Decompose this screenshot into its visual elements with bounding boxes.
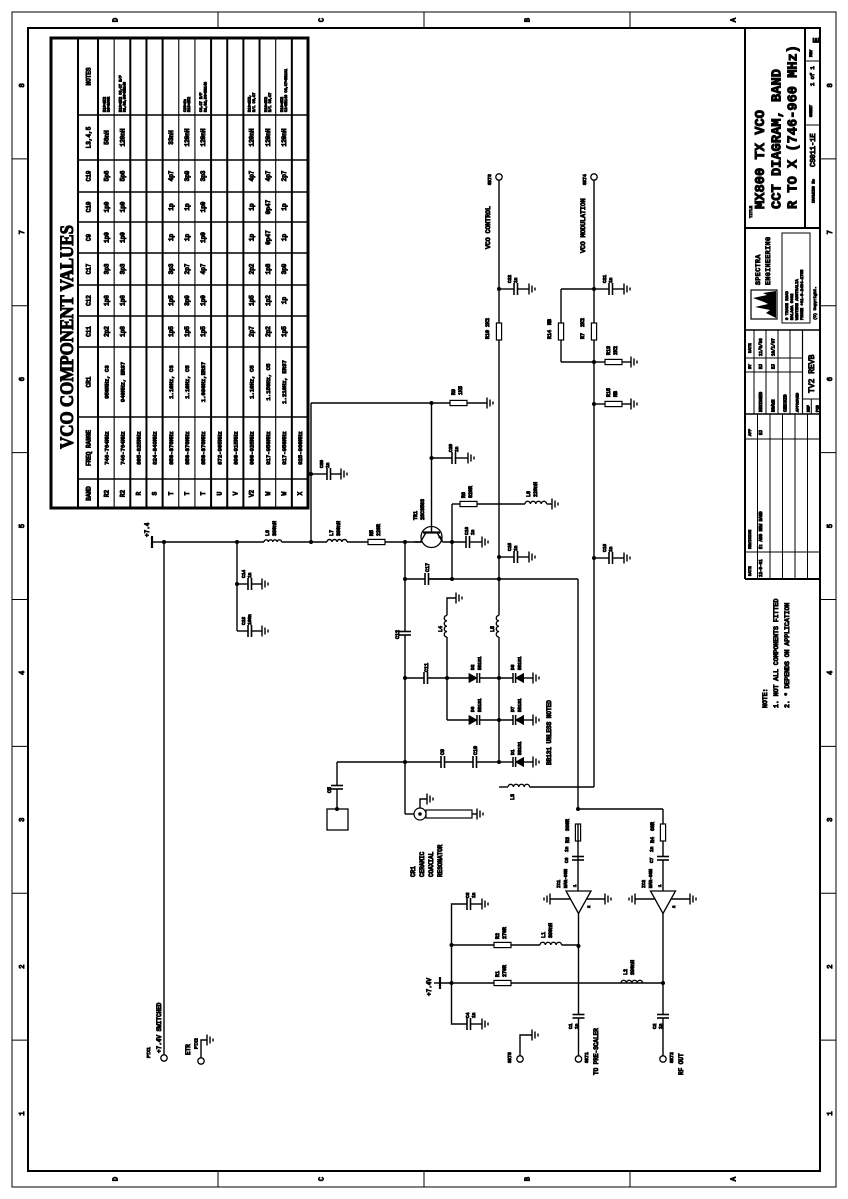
svg-text:R7: R7: [580, 333, 586, 339]
svg-text:9 TRADE ROAD: 9 TRADE ROAD: [786, 291, 790, 320]
resistor R10 2K2: [496, 323, 501, 340]
capacitor C21 1n: [592, 287, 596, 291]
svg-text:APP: APP: [749, 428, 753, 436]
svg-text:872-905MHz: 872-905MHz: [216, 431, 223, 465]
capacitor C30 1n: [309, 472, 313, 476]
wire emitter down: [443, 541, 467, 543]
svg-text:1n: 1n: [608, 546, 614, 552]
svg-text:B: B: [525, 18, 533, 22]
capacitor C22 1n: [497, 287, 501, 291]
svg-text:C11: C11: [86, 326, 93, 337]
svg-text:1n: 1n: [513, 277, 519, 283]
svg-text:3p3: 3p3: [168, 263, 175, 274]
svg-text:N/L C6,C7: N/L C6,C7: [252, 93, 257, 112]
svg-text:805-825MHz: 805-825MHz: [136, 431, 143, 465]
ground IC2 bottom: [671, 898, 691, 900]
svg-text:940MHz, ER37: 940MHz, ER37: [119, 362, 126, 402]
svg-text:ENGINEERING: ENGINEERING: [765, 237, 772, 285]
svg-text:MAR-6SM: MAR-6SM: [563, 869, 569, 888]
pad box: [327, 809, 348, 830]
svg-text:2p7: 2p7: [184, 263, 191, 274]
svg-text:16/1/97: 16/1/97: [771, 338, 776, 356]
svg-text:100n: 100n: [247, 614, 253, 625]
resistor R13 2K2: [592, 360, 596, 364]
svg-text:R2: R2: [495, 933, 501, 939]
svg-text:1. NOT ALL COMPONENTS FITTED: 1. NOT ALL COMPONENTS FITTED: [773, 599, 780, 708]
svg-text:SKT4: SKT4: [582, 174, 588, 185]
svg-text:CR1: CR1: [410, 866, 417, 877]
svg-text:1p: 1p: [249, 234, 256, 242]
svg-text:BAND: BAND: [86, 486, 93, 501]
svg-text:MALAGA 6062: MALAGA 6062: [791, 293, 795, 320]
svg-text:C20: C20: [448, 444, 454, 452]
resistor R4 68R: [660, 824, 665, 841]
svg-text:TO PRE-SCALER: TO PRE-SCALER: [593, 1028, 600, 1075]
resistor R1 270R: [494, 980, 511, 985]
svg-text:BB131 UNLESS NOTED: BB131 UNLESS NOTED: [546, 700, 553, 765]
capacitor C6 1n: [572, 859, 584, 861]
svg-text:1p: 1p: [281, 234, 288, 242]
svg-text:5p6: 5p6: [103, 170, 110, 181]
svg-text:W: W: [281, 491, 288, 495]
svg-text:1 of 1: 1 of 1: [809, 65, 816, 86]
svg-text:WESTERN AUSTRALIA: WESTERN AUSTRALIA: [796, 279, 800, 320]
svg-text:S: S: [152, 491, 159, 495]
svg-text:C18: C18: [602, 544, 608, 552]
svg-text:RESONATOR: RESONATOR: [437, 844, 444, 877]
capacitor C12: [399, 634, 411, 636]
svg-text:120nH: 120nH: [265, 128, 272, 146]
svg-text:3: 3: [19, 818, 27, 822]
svg-text:SKT1: SKT1: [584, 1052, 590, 1063]
svg-text:2SC3583: 2SC3583: [420, 499, 426, 520]
resistor R6 820R: [452, 503, 460, 505]
svg-text:1.1GHz, C3: 1.1GHz, C3: [168, 365, 175, 399]
svg-text:R15: R15: [606, 388, 612, 397]
svg-text:NB: NB: [613, 391, 619, 397]
svg-text:1p8: 1p8: [103, 295, 110, 306]
svg-text:1p5: 1p5: [168, 295, 175, 306]
wire pad to node: [337, 761, 405, 763]
resistor R7 2K2: [591, 323, 596, 340]
svg-text:890-915MHz: 890-915MHz: [233, 431, 240, 465]
svg-text:CCT DIAGRAM, BAND: CCT DIAGRAM, BAND: [770, 69, 786, 209]
svg-text:L1: L1: [541, 932, 547, 938]
svg-text:270R: 270R: [502, 965, 508, 977]
svg-text:2K2: 2K2: [580, 318, 586, 327]
svg-text:PTX2: PTX2: [194, 1038, 200, 1049]
svg-text:C11: C11: [424, 663, 430, 672]
svg-text:R14: R14: [547, 330, 553, 339]
capacitor C7 1n: [657, 859, 669, 861]
svg-text:C1=BB149 C6,C7=BB131: C1=BB149 C6,C7=BB131: [285, 69, 289, 112]
svg-text:REVISION: REVISION: [749, 529, 753, 549]
svg-text:1p0: 1p0: [200, 232, 207, 243]
capacitor C2 1n: [657, 1017, 669, 1019]
svg-text:746-764MHz: 746-764MHz: [119, 431, 126, 465]
svg-text:33nH: 33nH: [168, 130, 175, 145]
svg-text:IC2: IC2: [641, 880, 647, 888]
svg-text:L4: L4: [438, 626, 444, 632]
capacitor C3 1n: [452, 904, 468, 945]
svg-text:NOTE:: NOTE:: [762, 688, 769, 708]
svg-text:APPROVED: APPROVED: [797, 392, 801, 412]
svg-text:L8: L8: [526, 491, 532, 497]
svg-text:5: 5: [827, 524, 835, 528]
ground IC1 bottom: [586, 898, 605, 900]
svg-text:R6: R6: [461, 492, 467, 498]
svg-text:C9: C9: [86, 234, 93, 242]
svg-text:VCO MODULATION: VCO MODULATION: [580, 198, 587, 253]
resonator CR1: [405, 813, 414, 815]
svg-text:1n: 1n: [471, 1012, 477, 1018]
svg-text:12-9-01: 12-9-01: [760, 559, 764, 577]
svg-text:E: ADD NEW BAND: E: ADD NEW BAND: [760, 511, 764, 549]
svg-text:D1,D2,D3=BB149: D1,D2,D3=BB149: [204, 82, 208, 112]
wire VCO control: [498, 637, 500, 762]
wire IC1 output: [578, 914, 580, 947]
svg-text:VCO CONTROL: VCO CONTROL: [485, 206, 492, 249]
svg-text:7: 7: [827, 230, 835, 234]
connector SKT4: [591, 174, 597, 180]
svg-text:NOTES: NOTES: [86, 67, 93, 85]
capacitor C13 100n: [237, 630, 248, 632]
svg-text:5p6: 5p6: [119, 170, 126, 181]
svg-text:1p8: 1p8: [265, 263, 272, 274]
svg-text:2. * DEPENDS ON APPLICATION: 2. * DEPENDS ON APPLICATION: [784, 603, 791, 708]
wire bridge: [451, 945, 453, 983]
svg-text:0p47: 0p47: [265, 199, 272, 214]
svg-text:1p0: 1p0: [103, 201, 110, 212]
svg-text:(C) Copyright.: (C) Copyright.: [813, 286, 818, 320]
svg-text:120nH: 120nH: [184, 128, 191, 146]
svg-text:FREQ RANGE: FREQ RANGE: [86, 430, 93, 466]
svg-text:C19: C19: [86, 170, 93, 181]
svg-text:C12: C12: [86, 295, 93, 306]
power +7.4: [152, 541, 164, 543]
svg-text:850-870MHz: 850-870MHz: [200, 431, 207, 465]
svg-text:1: 1: [19, 1111, 27, 1115]
inductor L5: [496, 615, 499, 637]
svg-text:SKT5: SKT5: [507, 1052, 513, 1063]
svg-text:4p7: 4p7: [168, 170, 175, 181]
svg-text:D1: D1: [510, 749, 516, 755]
svg-text:SKT2: SKT2: [669, 1052, 675, 1063]
svg-text:1p5: 1p5: [249, 295, 256, 306]
svg-text:+7.4: +7.4: [144, 522, 151, 537]
svg-text:1p0: 1p0: [119, 201, 126, 212]
svg-text:1p8: 1p8: [119, 295, 126, 306]
capacitor C9: [405, 761, 441, 763]
wire base bias: [310, 403, 312, 542]
svg-text:C: C: [319, 18, 327, 22]
svg-text:C1: C1: [568, 1023, 574, 1029]
svg-text:3p9: 3p9: [281, 263, 288, 274]
svg-text:1.21GHz, ER37: 1.21GHz, ER37: [281, 360, 288, 404]
svg-text:L7: L7: [329, 530, 335, 536]
svg-text:D8: D8: [510, 664, 516, 670]
svg-text:3p3: 3p3: [103, 263, 110, 274]
svg-text:2p2: 2p2: [103, 326, 110, 337]
wire IC2 feed: [662, 809, 664, 824]
inductor L1 390nH: [511, 944, 540, 946]
svg-text:R TO X (746-960 MHz): R TO X (746-960 MHz): [786, 45, 802, 209]
svg-text:4p7: 4p7: [265, 170, 272, 181]
svg-text:3p9: 3p9: [184, 170, 191, 181]
svg-text:EJ: EJ: [760, 429, 764, 435]
wire C14/C13 branch: [236, 542, 238, 631]
svg-text:390nH: 390nH: [630, 960, 636, 975]
svg-text:1n: 1n: [608, 277, 614, 283]
svg-text:C10: C10: [473, 746, 479, 755]
resistor R15 NB: [592, 402, 596, 406]
inductor L4: [446, 637, 448, 678]
wire base lead: [431, 403, 433, 532]
transistor TR1 2SC3583: [421, 527, 442, 548]
svg-text:SKT3: SKT3: [487, 174, 493, 185]
capacitor C11: [405, 677, 424, 679]
svg-text:DATE: DATE: [749, 566, 753, 576]
svg-text:C22: C22: [507, 275, 513, 283]
capacitor C5: [336, 789, 338, 809]
svg-text:C13: C13: [241, 617, 247, 625]
svg-text:120nH: 120nH: [200, 128, 207, 146]
svg-text:DRAWN: DRAWN: [772, 399, 776, 412]
svg-text:925-960MHz: 925-960MHz: [297, 431, 304, 465]
svg-text:+7.4V SWITCHED: +7.4V SWITCHED: [156, 1002, 163, 1053]
svg-text:COAXIAL: COAXIAL: [428, 851, 435, 877]
svg-text:CR1: CR1: [86, 376, 93, 387]
svg-text:C17: C17: [425, 563, 431, 572]
svg-text:1p5: 1p5: [168, 326, 175, 337]
svg-text:1p2: 1p2: [265, 295, 272, 306]
svg-text:RF OUT: RF OUT: [678, 1053, 685, 1075]
svg-text:1n: 1n: [513, 545, 519, 551]
inductor L3: [499, 786, 508, 788]
svg-text:746-764MHz: 746-764MHz: [103, 431, 110, 465]
svg-text:68R: 68R: [650, 822, 656, 831]
capacitor C14 1n: [237, 583, 248, 585]
svg-text:REF: REF: [808, 404, 812, 412]
svg-text:C7: C7: [649, 857, 655, 863]
svg-text:390nH: 390nH: [548, 923, 554, 938]
svg-text:C3: C3: [465, 892, 471, 898]
svg-text:917-950MHz: 917-950MHz: [281, 431, 288, 465]
svg-text:56nH: 56nH: [103, 130, 110, 145]
svg-text:2: 2: [19, 965, 27, 969]
svg-text:R13=2K2: R13=2K2: [188, 97, 192, 112]
svg-text:4: 4: [19, 671, 27, 675]
svg-text:D: D: [113, 18, 121, 22]
svg-text:4: 4: [827, 671, 835, 675]
svg-text:PHONE +61-9-2484-2755: PHONE +61-9-2484-2755: [801, 269, 805, 320]
svg-text:X: X: [297, 491, 304, 495]
resistor R5 220R: [368, 539, 385, 544]
svg-text:1n: 1n: [247, 572, 253, 578]
connector SKT5: [517, 1056, 523, 1062]
svg-text:T: T: [200, 491, 207, 495]
svg-text:4p7: 4p7: [200, 263, 207, 274]
svg-text:390nH: 390nH: [272, 521, 278, 536]
connector SKT3: [496, 174, 502, 180]
wire VCO modulation: [593, 340, 595, 787]
svg-text:3p3: 3p3: [119, 263, 126, 274]
svg-text:1.1GHz, C5: 1.1GHz, C5: [184, 365, 191, 399]
svg-text:2p7: 2p7: [249, 326, 256, 337]
svg-text:850-870MHz: 850-870MHz: [184, 431, 191, 465]
svg-text:SPECTRA: SPECTRA: [755, 254, 762, 285]
wire collector from R5: [414, 541, 421, 543]
svg-text:L5: L5: [490, 626, 496, 632]
svg-text:R5: R5: [369, 530, 375, 536]
svg-text:C14: C14: [241, 570, 247, 578]
capacitor C4 1n: [452, 983, 468, 1024]
svg-text:2p2: 2p2: [265, 326, 272, 337]
svg-text:1p: 1p: [281, 203, 288, 211]
svg-text:DRAWING No: DRAWING No: [813, 178, 817, 203]
svg-text:R9: R9: [451, 389, 457, 395]
svg-text:1p0: 1p0: [103, 232, 110, 243]
capacitor C17 feedback: [405, 578, 425, 580]
svg-text:1p0: 1p0: [119, 232, 126, 243]
svg-text:824-849MHz: 824-849MHz: [152, 431, 159, 465]
svg-text:2K2: 2K2: [613, 346, 619, 355]
svg-text:R2: R2: [103, 490, 110, 498]
svg-text:R1: R1: [495, 971, 501, 977]
wire resonator node: [404, 635, 406, 814]
svg-text:1p5: 1p5: [184, 326, 191, 337]
svg-text:8: 8: [19, 83, 27, 87]
power +7.4V: [440, 982, 663, 984]
svg-text:2p2: 2p2: [249, 263, 256, 274]
svg-text:2p7: 2p7: [281, 170, 288, 181]
svg-text:1n: 1n: [325, 462, 331, 468]
svg-text:D7: D7: [510, 706, 516, 712]
svg-text:5: 5: [19, 524, 27, 528]
svg-text:VCO COMPONENT VALUES: VCO COMPONENT VALUES: [57, 225, 78, 449]
resistor R14 NB (parallel): [560, 340, 562, 362]
svg-text:R4=100R: R4=100R: [107, 96, 111, 112]
svg-text:CS011-1E: CS011-1E: [810, 133, 818, 167]
svg-text:1p0: 1p0: [200, 201, 207, 212]
svg-text:C21: C21: [602, 275, 608, 283]
wire link columns: [446, 678, 448, 720]
svg-text:120nH: 120nH: [119, 128, 126, 146]
svg-text:L3: L3: [510, 794, 516, 800]
wire to control junction: [429, 578, 453, 580]
svg-text:D: D: [113, 1177, 121, 1181]
svg-text:1.09GHz,ER37: 1.09GHz,ER37: [200, 362, 207, 402]
capacitor C20 1n: [430, 456, 434, 460]
svg-text:820R: 820R: [468, 486, 474, 498]
svg-text:E: E: [812, 37, 822, 43]
svg-text:R3: R3: [565, 837, 571, 843]
amplifier IC1 MAR-6SM: [566, 891, 591, 914]
svg-text:BB131: BB131: [517, 656, 523, 670]
svg-text:220R: 220R: [376, 524, 382, 536]
varactor D6 BB131: [447, 719, 469, 721]
svg-text:BB131: BB131: [477, 698, 483, 712]
wire IC2 output: [662, 914, 664, 1015]
title block: [744, 28, 746, 579]
svg-text:C4: C4: [465, 1012, 471, 1018]
svg-text:1.15GHz, C5: 1.15GHz, C5: [265, 364, 272, 401]
svg-text:REV: REV: [810, 49, 814, 57]
svg-text:1p: 1p: [184, 203, 191, 211]
svg-text:4p7: 4p7: [249, 170, 256, 181]
svg-text:N/L C6,C7: N/L C6,C7: [268, 93, 273, 112]
svg-text:C5: C5: [327, 787, 333, 793]
resistor R9 1K5: [430, 401, 434, 405]
svg-text:1p0: 1p0: [200, 295, 207, 306]
svg-text:0p47: 0p47: [265, 230, 272, 245]
resistor R3 360R: [575, 824, 580, 841]
connector PTX1 +7.4V SWITCHED: [161, 1055, 167, 1061]
svg-text:B: B: [525, 1177, 533, 1181]
svg-text:R: R: [136, 491, 143, 495]
svg-text:2K2: 2K2: [485, 318, 491, 327]
svg-text:MX800 TX VCO: MX800 TX VCO: [753, 110, 769, 209]
varactor D8 BB131: [512, 673, 514, 683]
wire buffer feed: [577, 579, 579, 809]
svg-text:270R: 270R: [502, 927, 508, 939]
ground resonator side: [420, 799, 427, 808]
svg-text:2: 2: [827, 965, 835, 969]
svg-text:1p5: 1p5: [200, 326, 207, 337]
inductor L6 390nH: [264, 540, 282, 542]
svg-text:ETR: ETR: [185, 1044, 192, 1055]
svg-text:390nH: 390nH: [336, 521, 342, 536]
connector SKT1: [575, 1056, 581, 1062]
svg-text:L2: L2: [623, 969, 629, 975]
svg-text:SHEET: SHEET: [810, 104, 814, 117]
svg-text:C16: C16: [464, 527, 470, 535]
svg-text:TR1: TR1: [413, 511, 419, 520]
svg-text:C10: C10: [86, 201, 93, 212]
ground IC2 top: [635, 898, 656, 900]
inductor L2 390nH: [621, 980, 643, 983]
svg-text:PTX1: PTX1: [146, 1047, 152, 1058]
capacitor C18 1n: [592, 556, 596, 560]
capacitor C1 1n: [573, 1017, 585, 1019]
svg-text:120nH: 120nH: [249, 128, 256, 146]
svg-text:C2: C2: [652, 1023, 658, 1029]
svg-text:917-950MHz: 917-950MHz: [265, 431, 272, 465]
svg-text:1n: 1n: [470, 529, 476, 535]
inductor L7 390nH: [327, 539, 347, 542]
varactor D2 BB131: [447, 677, 469, 679]
svg-text:3p3: 3p3: [200, 170, 207, 181]
svg-text:V: V: [233, 491, 240, 495]
svg-text:D6: D6: [470, 706, 476, 712]
svg-text:C17: C17: [86, 263, 93, 274]
svg-text:1p5: 1p5: [281, 326, 288, 337]
svg-text:T: T: [184, 491, 191, 495]
svg-text:W: W: [265, 491, 272, 495]
svg-text:C12: C12: [395, 630, 401, 639]
svg-text:R2: R2: [119, 490, 126, 498]
svg-text:T: T: [168, 491, 175, 495]
wire emitter branch: [451, 504, 453, 579]
svg-text:1: 1: [827, 1111, 835, 1115]
wire supply column: [164, 541, 264, 543]
svg-text:3p9: 3p9: [184, 295, 191, 306]
svg-text:220nH: 220nH: [533, 482, 539, 497]
svg-text:BB131: BB131: [517, 741, 523, 755]
svg-text:CERAMIC: CERAMIC: [419, 851, 426, 877]
svg-text:8: 8: [827, 83, 835, 87]
svg-text:BB131: BB131: [477, 656, 483, 670]
